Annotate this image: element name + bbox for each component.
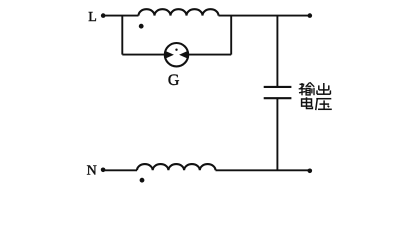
label G [168, 72, 180, 89]
polarity dot (top inductor) [139, 24, 144, 29]
gas discharge tube G gas dot [175, 49, 177, 51]
gas discharge tube G right electrode arrow [179, 51, 188, 59]
terminal label L [88, 10, 97, 25]
wire output vertical upper (to capacitor) [276, 16, 278, 87]
svg-text:L: L [88, 10, 97, 25]
label output-voltage char 4 (ya) [316, 99, 332, 110]
capacitor top plate [264, 86, 292, 88]
wire bottom-right (inductor to output terminal) [216, 169, 310, 171]
gas discharge tube G left electrode arrow [165, 51, 174, 59]
wire right vertical of G branch [230, 16, 232, 55]
capacitor bottom plate [264, 97, 292, 99]
terminal dot L [101, 13, 106, 18]
inductor L2 (bottom coil, 5 humps) [137, 164, 215, 170]
polarity dot (bottom inductor) [140, 178, 145, 183]
terminal dot (top right output) [308, 13, 313, 18]
wire top-left (L terminal to inductor) [103, 15, 138, 17]
terminal dot N [101, 168, 106, 173]
wire bottom-left (N terminal to inductor) [103, 169, 137, 171]
svg-text:N: N [87, 163, 97, 178]
label output-voltage char 2 (chu) [317, 83, 330, 94]
wire top-right (inductor to output terminal) [219, 15, 310, 17]
inductor L1 (top coil, 5 humps) [139, 9, 219, 15]
wire G branch right horizontal [189, 54, 232, 56]
wire left vertical of G branch [121, 16, 123, 55]
label output-voltage char 1 (shu) [299, 82, 315, 95]
label output-voltage char 3 (dian) [302, 97, 313, 108]
terminal dot (bottom right output) [308, 169, 313, 174]
gas discharge tube G (circle) [165, 43, 188, 66]
wire G branch left horizontal [122, 54, 165, 56]
terminal label N [87, 163, 97, 178]
wire output vertical lower (capacitor to bottom wire) [276, 98, 278, 170]
svg-text:G: G [168, 72, 180, 89]
